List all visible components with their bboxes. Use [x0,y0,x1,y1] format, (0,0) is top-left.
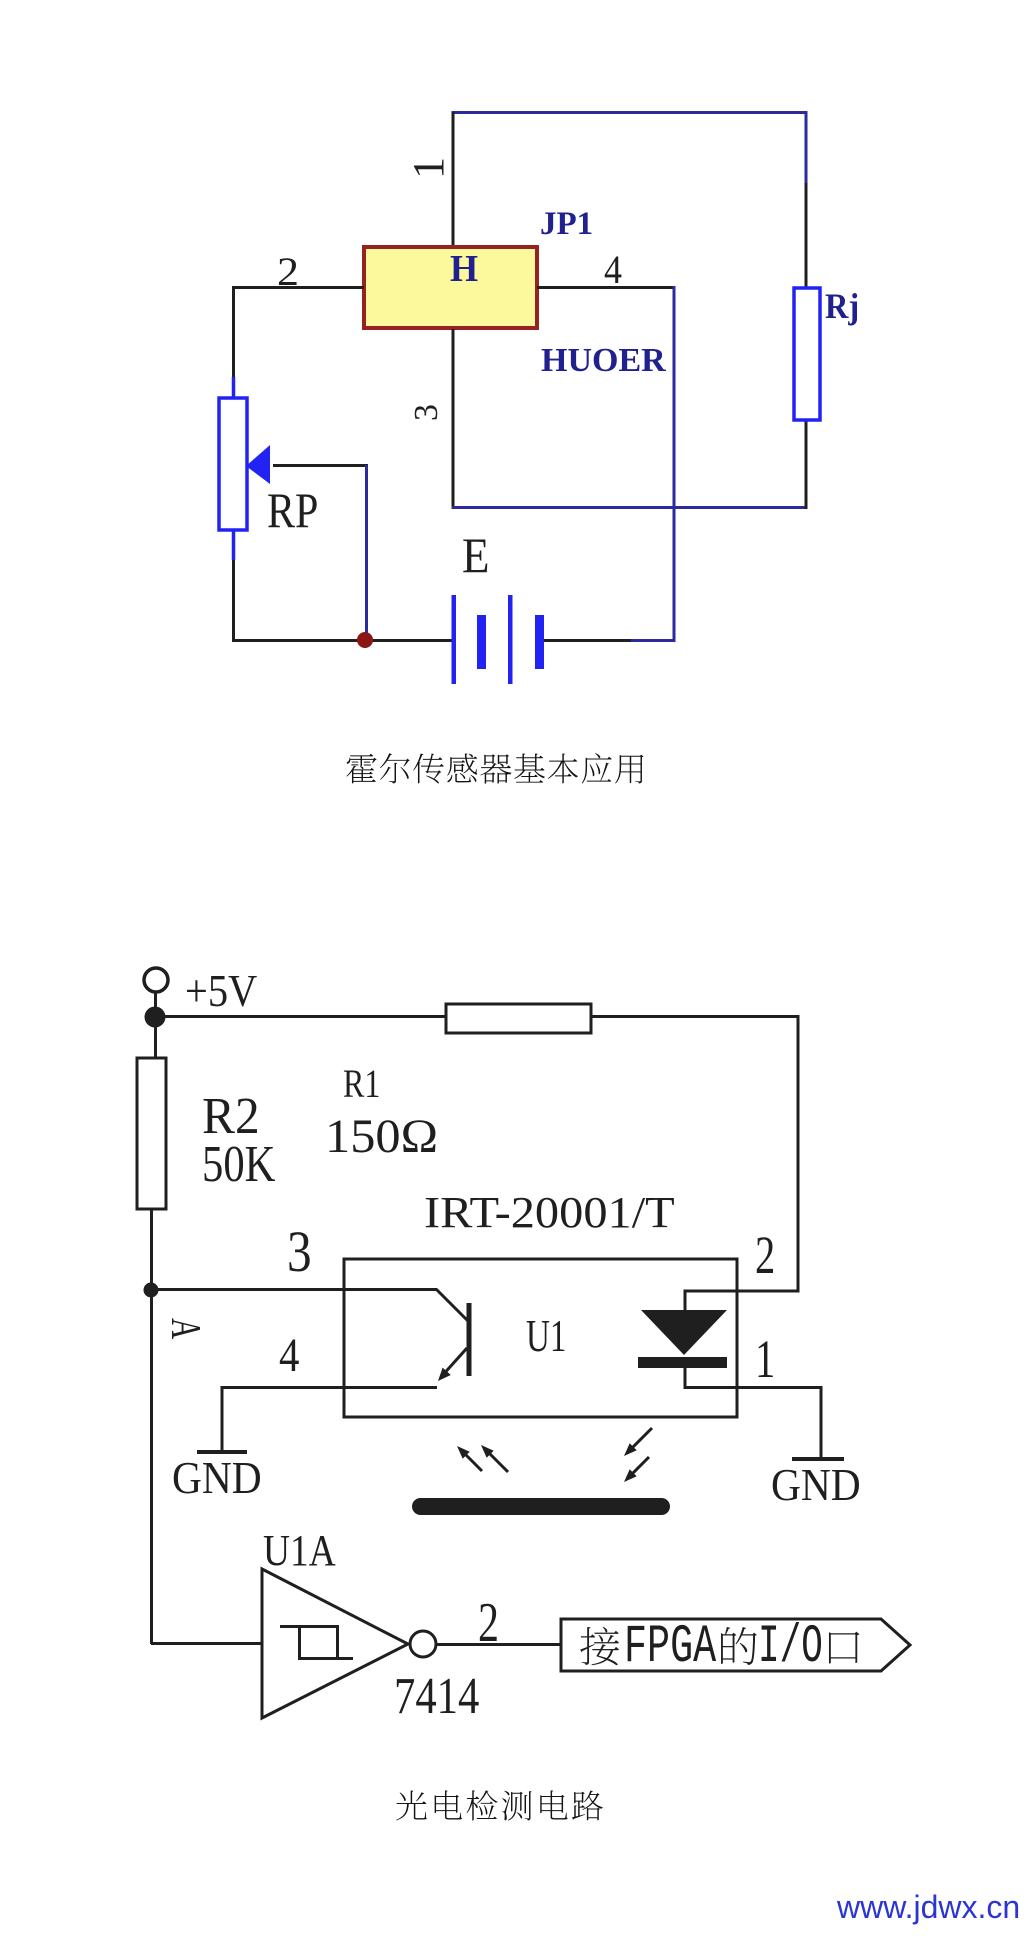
svg-text:HUOER: HUOER [541,342,666,379]
wire pin3 vertical black [452,329,455,508]
phototransistor emitter diagonal [441,1348,467,1377]
wire left vertical black upper [232,286,235,377]
wire right vertical black lower [805,420,808,509]
wire down to inverter input [150,1290,153,1644]
wire pin2 horizontal [232,286,364,289]
wire pin4 horizontal [537,286,674,289]
svg-text:GND: GND [172,1453,262,1503]
svg-text:2: 2 [755,1225,775,1285]
wire bottom navy horizontal of top loop [452,506,808,509]
optocoupler U1 box [344,1259,737,1417]
light arrow right D [630,1457,649,1476]
svg-text:JP1: JP1 [540,206,593,242]
junction node (red dot) [357,632,373,648]
junction node pin3 [144,1283,159,1298]
junction node at +5V rail [145,1007,166,1028]
potentiometer RP body [219,398,247,530]
FPGA box text: jie [580,1627,619,1666]
svg-text:2: 2 [478,1591,499,1653]
battery E plate 4 [535,615,544,669]
FPGA box text: de [721,1627,757,1665]
svg-text:3: 3 [287,1219,312,1284]
svg-text:1: 1 [404,157,453,179]
wire +5V rail left [155,1015,447,1018]
wire bottom left horizontal [232,639,454,642]
svg-text:IRT-20001/T: IRT-20001/T [424,1189,675,1238]
svg-text:U1: U1 [526,1310,566,1362]
battery E plate 1 [452,595,457,684]
LED anode triangle [641,1310,727,1355]
+5V terminal circle [144,968,168,992]
svg-text:+5V: +5V [185,966,257,1017]
wire terminal stub [154,992,157,1058]
svg-text:1: 1 [755,1329,775,1389]
phototransistor emitter arrowhead [438,1368,451,1381]
svg-text:GND: GND [771,1460,861,1510]
wire R2 to junction [150,1209,153,1291]
svg-text:50K: 50K [202,1136,275,1193]
inverter output bubble [410,1631,436,1657]
svg-text:Rj: Rj [825,286,859,326]
battery E plate 3 [508,595,513,684]
svg-text:150Ω: 150Ω [325,1109,438,1163]
light arrow right C [630,1428,652,1450]
svg-text:A: A [163,1318,209,1339]
phototransistor collector diagonal [436,1289,468,1321]
wire pin1 to GND [684,1388,821,1460]
svg-text:H: H [450,248,478,290]
phototransistor base bar [467,1303,472,1376]
wire bottom right of battery [544,639,631,642]
svg-text:4: 4 [279,1328,299,1382]
wire pin4 down to GND [221,1386,224,1452]
resistor R2 body [137,1058,166,1209]
wire wiper horizontal [273,464,368,467]
light arrow left B [488,1452,508,1472]
svg-text:U1A: U1A [263,1526,336,1574]
wire blue stub above RP [232,377,236,398]
ground bar left [197,1450,247,1454]
wire inverter input [151,1642,262,1645]
inverter U1A triangle [262,1569,408,1718]
wire wiper navy vertical [365,465,368,640]
hysteresis symbol [280,1627,338,1661]
wire right vertical black upper [805,183,808,289]
resistor R1 body [446,1004,591,1033]
wire +5V rail right [590,1015,800,1018]
hall sensor H (JP1) yellow box [364,247,537,328]
wire left vertical black lower [232,560,235,642]
wire top navy horizontal [452,111,808,114]
resistor Rj [794,288,820,420]
wire LED cathode stub [684,1368,687,1389]
wire pin1 vertical black [452,112,455,248]
svg-text:3: 3 [408,404,445,421]
svg-text:4: 4 [604,248,622,292]
svg-text:R1: R1 [343,1062,380,1106]
light arrow left A [464,1453,482,1471]
ground bar right [792,1457,844,1461]
wire pin4 emitter [222,1386,437,1389]
battery E plate 2 [477,615,486,669]
wire pin2 from R1 down to LED anode [685,1016,798,1312]
svg-text:I/O: I/O [758,1616,823,1677]
caption: photoelectric detection circuit [396,1791,427,1821]
svg-text:RP: RP [267,483,318,538]
svg-text:FPGA: FPGA [624,1617,717,1678]
wire right vertical navy segment [805,111,808,183]
svg-text:E: E [462,529,489,584]
wire pin3 to phototransistor [151,1288,437,1291]
FPGA I/O pointer box [561,1619,910,1671]
svg-text:www.jdwx.cn: www.jdwx.cn [836,1889,1020,1925]
wire inverter output [436,1643,561,1646]
caption: hall sensor basic application [346,754,376,784]
slot bar (light gap) [412,1498,670,1515]
LED cathode bar [638,1357,727,1368]
wire pin4 navy vertical down to battery [630,286,674,641]
RP wiper arrow [246,445,270,484]
svg-text:7414: 7414 [394,1668,479,1725]
wire blue stub below RP [232,530,236,560]
FPGA box text: kou [829,1632,860,1664]
